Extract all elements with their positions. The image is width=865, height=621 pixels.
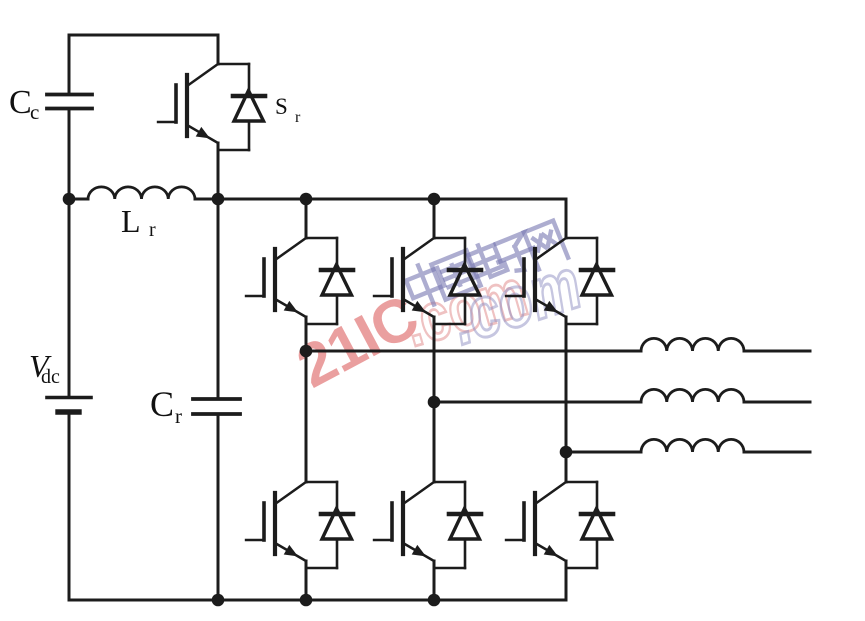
V4 lower IGBT gate bar — [262, 503, 266, 540]
wire left lower — [68, 199, 71, 396]
V1 upper IGBT emitter arrow — [284, 301, 298, 313]
node left rail — [63, 193, 76, 206]
V3 upper IGBT gate lead — [506, 295, 524, 297]
V1 upper IGBT body bar — [273, 249, 277, 310]
V2 upper IGBT gate lead — [374, 295, 392, 297]
V5 lower IGBT gate bar — [390, 503, 394, 540]
V4 lower IGBT diode cathode bar — [321, 512, 353, 517]
node bottom rail leg 2 — [428, 594, 441, 607]
watermark blue char zi 子 — [492, 231, 540, 277]
wire bottom rail — [69, 599, 566, 602]
inductor Lr left lead — [69, 198, 88, 201]
load inductor phase B — [641, 389, 744, 402]
svg-text:L: L — [121, 203, 141, 239]
capacitor Cc bottom plate — [47, 107, 92, 111]
wire leg 2 upper drop — [433, 199, 436, 238]
node phase B — [428, 396, 441, 409]
watermark red 21IC — [286, 282, 428, 401]
wire top rail left — [69, 34, 218, 37]
V4 lower IGBT diode top lead — [306, 481, 337, 483]
switch Sr IGBT diode triangle — [234, 91, 264, 122]
wire dc rail — [218, 198, 566, 201]
switch Sr IGBT gate lead — [158, 121, 176, 123]
wire phase B lead — [434, 401, 641, 404]
wire phase C tail — [744, 451, 810, 454]
node phase C — [560, 446, 573, 459]
watermark blue char guo 国 — [431, 250, 480, 299]
node dc rail leg 2 — [428, 193, 441, 206]
V2 upper IGBT diode bottom lead — [434, 323, 465, 325]
node mid rail — [212, 193, 225, 206]
V5 lower IGBT diode triangle — [450, 509, 480, 540]
wire left middle — [68, 109, 71, 200]
V1 upper IGBT emitter slant — [275, 299, 306, 317]
V4 lower IGBT diode cathode wire — [336, 482, 339, 514]
V5 lower IGBT collector slant — [403, 482, 434, 504]
inductor Lr — [88, 187, 195, 199]
wire leg 1 lower drop — [305, 561, 308, 600]
V6 lower IGBT emitter slant — [535, 543, 566, 561]
wire leg 1 upper drop — [305, 199, 308, 238]
V1 upper IGBT diode cathode wire — [336, 238, 339, 270]
V2 upper IGBT diode triangle — [450, 265, 480, 296]
wire left bottom — [68, 413, 71, 600]
watermark blue char dian 电 — [465, 239, 508, 282]
V2 upper IGBT body bar — [401, 249, 405, 310]
V6 lower IGBT gate lead — [506, 539, 524, 541]
node bottom rail leg 1 — [300, 594, 313, 607]
wire Sr collector drop — [217, 35, 220, 64]
wire phase A lead — [306, 350, 641, 353]
svg-text:r: r — [295, 109, 301, 126]
switch Sr IGBT diode cathode wire — [248, 64, 251, 96]
V4 lower IGBT emitter arrow — [284, 545, 298, 557]
V5 lower IGBT emitter arrow — [412, 545, 426, 557]
wire Cr to bottom — [217, 414, 220, 600]
V2 upper IGBT diode top lead — [434, 237, 465, 239]
wire leg 3 middle — [565, 317, 568, 482]
V6 lower IGBT body bar — [533, 493, 537, 554]
V5 lower IGBT diode bottom lead — [434, 567, 465, 569]
V4 lower IGBT body bar — [273, 493, 277, 554]
node bottom rail 1 — [212, 594, 225, 607]
V5 lower IGBT body bar — [401, 493, 405, 554]
V3 upper IGBT diode anode wire — [596, 295, 599, 324]
V5 lower IGBT diode cathode wire — [464, 482, 467, 514]
V6 lower IGBT diode top lead — [566, 481, 597, 483]
wire Sr emitter drop — [217, 143, 220, 199]
switch Sr IGBT emitter slant — [187, 125, 218, 143]
V3 upper IGBT diode cathode bar — [581, 268, 613, 273]
V5 lower IGBT emitter slant — [403, 543, 434, 561]
V2 upper IGBT diode cathode wire — [464, 238, 467, 270]
V2 upper IGBT emitter arrow — [412, 301, 426, 313]
load inductor phase A — [641, 338, 744, 351]
svg-text:r: r — [149, 219, 156, 241]
switch Sr IGBT diode cathode bar — [233, 94, 265, 99]
V5 lower IGBT diode top lead — [434, 481, 465, 483]
V5 lower IGBT diode anode wire — [464, 539, 467, 568]
V3 upper IGBT diode cathode wire — [596, 238, 599, 270]
wire phase A tail — [744, 350, 810, 353]
V6 lower IGBT diode bottom lead — [566, 567, 597, 569]
V3 upper IGBT diode triangle — [582, 265, 612, 296]
inductor Lr right lead — [195, 198, 218, 201]
V4 lower IGBT emitter slant — [275, 543, 306, 561]
wire leg 2 middle — [433, 317, 436, 482]
wire phase B tail — [744, 401, 810, 404]
watermark blue char wang 网 — [524, 221, 568, 270]
wire phase C lead — [566, 451, 641, 454]
V5 lower IGBT diode cathode bar — [449, 512, 481, 517]
V3 upper IGBT gate bar — [522, 259, 526, 296]
svg-text:C: C — [9, 84, 32, 121]
V6 lower IGBT collector slant — [535, 482, 566, 504]
wire leg 2 lower drop — [433, 561, 436, 600]
V2 upper IGBT gate bar — [390, 259, 394, 296]
V6 lower IGBT diode anode wire — [596, 539, 599, 568]
V4 lower IGBT gate lead — [246, 539, 264, 541]
V4 lower IGBT diode anode wire — [336, 539, 339, 568]
switch Sr IGBT diode top lead — [218, 63, 249, 65]
V1 upper IGBT diode top lead — [306, 237, 337, 239]
watermark blue char zhong 中 — [403, 259, 450, 311]
switch Sr IGBT diode anode wire — [248, 121, 251, 150]
V2 upper IGBT collector slant — [403, 238, 434, 260]
V6 lower IGBT emitter arrow — [544, 545, 558, 557]
V4 lower IGBT collector slant — [275, 482, 306, 504]
V3 upper IGBT emitter slant — [535, 299, 566, 317]
node dc rail leg 1 — [300, 193, 313, 206]
switch Sr IGBT emitter arrow — [196, 127, 210, 138]
svg-text:dc: dc — [41, 366, 60, 388]
node phase A — [300, 345, 313, 358]
battery Vdc negative plate — [58, 409, 79, 414]
capacitor Cr bottom plate — [193, 412, 240, 416]
V1 upper IGBT diode bottom lead — [306, 323, 337, 325]
load inductor phase C — [641, 439, 744, 452]
svg-text:r: r — [175, 404, 182, 428]
capacitor Cc top plate — [47, 93, 92, 97]
V5 lower IGBT gate lead — [374, 539, 392, 541]
V3 upper IGBT diode top lead — [566, 237, 597, 239]
V2 upper IGBT diode cathode bar — [449, 268, 481, 273]
switch Sr IGBT body bar — [185, 75, 189, 136]
V6 lower IGBT diode triangle — [582, 509, 612, 540]
capacitor Cr top plate — [193, 397, 240, 401]
svg-text:S: S — [275, 94, 288, 119]
V1 upper IGBT collector slant — [275, 238, 306, 260]
V2 upper IGBT diode anode wire — [464, 295, 467, 324]
V4 lower IGBT diode triangle — [322, 509, 352, 540]
V6 lower IGBT gate bar — [522, 503, 526, 540]
V3 upper IGBT collector slant — [535, 238, 566, 260]
battery Vdc positive plate — [47, 396, 91, 400]
V3 upper IGBT emitter arrow — [544, 301, 558, 313]
V6 lower IGBT diode cathode wire — [596, 482, 599, 514]
switch Sr IGBT gate bar — [174, 85, 178, 122]
svg-text:c: c — [30, 100, 39, 124]
watermark pink .com outline — [395, 254, 535, 361]
V1 upper IGBT diode anode wire — [336, 295, 339, 324]
wire leg 1 middle — [305, 317, 308, 482]
V1 upper IGBT gate bar — [262, 259, 266, 296]
V4 lower IGBT diode bottom lead — [306, 567, 337, 569]
V1 upper IGBT diode triangle — [322, 265, 352, 296]
V3 upper IGBT body bar — [533, 249, 537, 310]
wire Cr drop — [217, 199, 220, 398]
switch Sr IGBT diode bottom lead — [218, 149, 249, 151]
V1 upper IGBT diode cathode bar — [321, 268, 353, 273]
svg-text:C: C — [150, 384, 174, 424]
V3 upper IGBT diode bottom lead — [566, 323, 597, 325]
watermark blue .com script — [441, 243, 590, 360]
wire leg 3 upper drop — [565, 199, 568, 238]
wire leg 3 lower drop — [565, 561, 568, 600]
V1 upper IGBT gate lead — [246, 295, 264, 297]
V6 lower IGBT diode cathode bar — [581, 512, 613, 517]
V2 upper IGBT emitter slant — [403, 299, 434, 317]
switch Sr IGBT collector slant — [187, 64, 218, 86]
wire left top — [68, 35, 71, 94]
